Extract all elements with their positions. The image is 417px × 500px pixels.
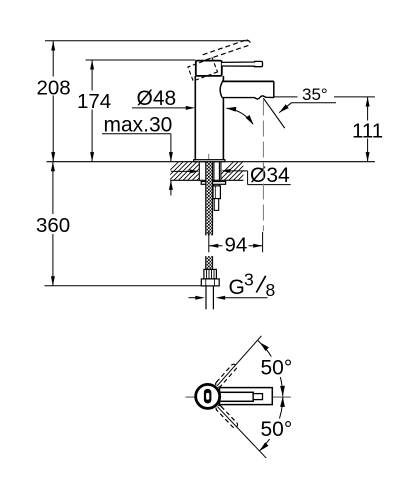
dashed head position (lever raised) [188, 58, 218, 81]
hose connection nut G3/8 [201, 279, 219, 286]
lower 50 deg arc [259, 397, 285, 452]
svg-text:Ø48: Ø48 [137, 87, 177, 110]
flow direction line [263, 98, 284, 128]
flexible hose braid (upper) [206, 162, 213, 236]
svg-text:3: 3 [244, 270, 254, 290]
spout outlet reference line (35 deg) [274, 96, 375, 98]
flexible hose braid (lower) [206, 256, 213, 269]
label 35 deg [298, 85, 335, 104]
label diameter 48 [132, 87, 195, 110]
svg-text:50°: 50° [261, 357, 293, 380]
label 50 deg upper [257, 357, 297, 380]
svg-text:max.30: max.30 [104, 113, 173, 136]
counter hole right edge [220, 162, 222, 181]
label 50 deg lower [257, 418, 297, 441]
wire head-top extension line for 174 [86, 59, 196, 61]
top view centerline [185, 396, 291, 398]
stud end below nut [214, 199, 219, 211]
lower swivel line 50 deg [215, 404, 268, 460]
counter bottom line [170, 179, 243, 181]
svg-text:174: 174 [77, 90, 111, 113]
spout [222, 81, 274, 99]
wire top extension line (lever max height) [45, 40, 248, 42]
svg-text:Ø34: Ø34 [250, 164, 290, 187]
dimension 94 [209, 232, 263, 257]
mounting nut [213, 186, 220, 199]
flow angle arc arrows [226, 107, 254, 125]
cartridge head [196, 61, 222, 76]
label diameter 34 [171, 164, 291, 187]
lower dashed lever [215, 404, 239, 429]
dimension 174 [76, 60, 111, 162]
leader 35 deg [279, 103, 336, 113]
faucet body [195, 76, 223, 160]
dimension 111 [351, 97, 383, 162]
svg-text:35°: 35° [302, 85, 328, 104]
base flange [194, 160, 225, 162]
upper dashed lever [214, 363, 237, 388]
bottom reference line (hose end) [44, 285, 201, 287]
top view spout [220, 388, 273, 405]
svg-text:208: 208 [37, 76, 71, 99]
hose crimp sleeve [204, 269, 217, 279]
label G 3/8 [189, 270, 276, 301]
dashed lever (raised position) [203, 40, 251, 60]
svg-text:50°: 50° [261, 418, 293, 441]
counter hatching left [160, 162, 257, 181]
svg-text:111: 111 [352, 119, 383, 142]
counter top line [47, 161, 375, 163]
svg-text:G: G [229, 276, 245, 299]
mounting washer [201, 182, 225, 185]
top view lever [218, 392, 263, 401]
upper 50 deg arc [258, 341, 285, 397]
label max.30 [102, 113, 173, 195]
threaded stud through counter [214, 162, 220, 186]
dimension 360 [35, 162, 72, 286]
spout tip extension line (gray) [262, 100, 264, 232]
lever handle (horizontal) [222, 61, 263, 66]
upper swivel line 50 deg [214, 334, 263, 388]
svg-text:8: 8 [266, 280, 276, 300]
counter hole left edge [198, 162, 200, 181]
hose end tube [206, 286, 213, 309]
top view lever slot [204, 389, 212, 404]
svg-text:94: 94 [225, 233, 248, 256]
dimension 208 [36, 41, 71, 162]
hose seen in body outlet [208, 154, 210, 160]
svg-text:360: 360 [36, 214, 70, 237]
top view body circle [196, 384, 220, 408]
spout-body junction curve [220, 82, 222, 97]
